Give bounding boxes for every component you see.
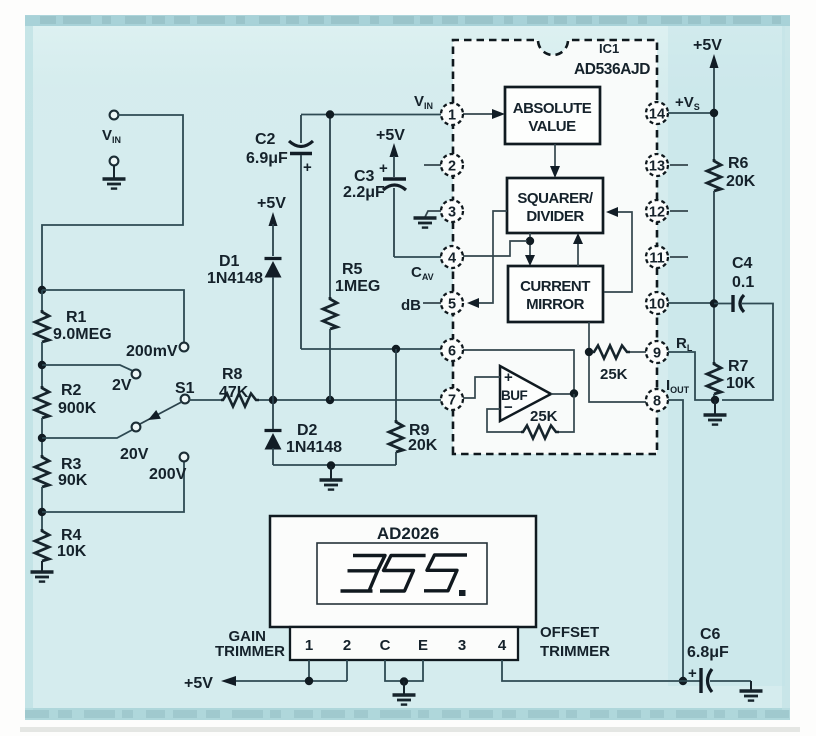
svg-text:2: 2 (448, 159, 456, 175)
node 25K/pin9 junction (585, 348, 593, 356)
pin 12 (646, 200, 668, 222)
pin 2 stub (424, 164, 441, 166)
pin 7 (441, 388, 463, 410)
wire display pin 1 down (308, 660, 310, 681)
wire S1 to R8 (189, 399, 221, 401)
svg-text:6.9μF: 6.9μF (246, 150, 288, 167)
svg-text:4: 4 (448, 251, 456, 267)
resistor 25K (BUF feedback) (521, 426, 559, 439)
svg-text:200V: 200V (149, 466, 187, 483)
node D1/D2 junction (269, 396, 277, 404)
7-segment digit 5 (right) (424, 555, 467, 591)
svg-text:12: 12 (649, 205, 665, 221)
svg-text:R4: R4 (61, 527, 82, 544)
svg-text:R2: R2 (61, 382, 82, 399)
wire pin6 to BUF output node (463, 350, 574, 390)
pin 11 stub (670, 256, 688, 258)
wire 200mV tap (42, 290, 184, 343)
wire R3 to R4 (41, 487, 43, 529)
svg-text:R1: R1 (66, 309, 87, 326)
node 2V contact (132, 370, 141, 379)
svg-text:3: 3 (458, 637, 466, 654)
svg-text:VALUE: VALUE (528, 118, 576, 135)
wire pin 9 to ground node (668, 352, 711, 400)
svg-text:1: 1 (448, 108, 456, 124)
node SQ/CM link junction (526, 237, 534, 245)
svg-text:8: 8 (653, 394, 661, 410)
wire display pin 2 down (346, 660, 348, 681)
svg-text:C6: C6 (700, 626, 721, 643)
svg-text:C3: C3 (354, 168, 375, 185)
ground (divider bottom) (41, 561, 43, 571)
resistor R3 (35, 455, 49, 487)
svg-text:9: 9 (653, 346, 661, 362)
display module AD2026 body (270, 516, 536, 627)
wire C4 return loop (722, 304, 773, 401)
svg-text:2: 2 (343, 637, 351, 654)
pin 12 stub (670, 210, 688, 212)
wire R6 to pin10 node (713, 191, 715, 362)
capacitor C6 6.8uF (683, 680, 701, 682)
wire CM right feedback to SQ right with left arrow (604, 212, 632, 292)
switch S1 arm (140, 402, 182, 424)
svg-text:C: C (380, 637, 391, 654)
pin 14 (646, 102, 668, 124)
decimal point (459, 590, 466, 596)
svg-text:2V: 2V (112, 377, 132, 394)
node 200V tap junction (38, 508, 46, 516)
svg-text:47K: 47K (219, 384, 249, 401)
svg-text:+: + (379, 160, 388, 177)
svg-text:0.1: 0.1 (732, 274, 754, 291)
wire CM top to SQ bottom with up arrow (577, 240, 579, 266)
resistor R1 (35, 310, 49, 342)
svg-text:90K: 90K (58, 472, 88, 489)
pin 11 (646, 246, 668, 268)
svg-text:+5V: +5V (376, 127, 405, 144)
svg-text:+: + (504, 369, 513, 386)
wire +5V feed to display (227, 680, 347, 682)
node C/E ground junction (400, 677, 408, 685)
resistor 25K (pin 9) (592, 346, 630, 359)
svg-text:R5: R5 (342, 261, 363, 278)
wire pin 10 to rail (668, 302, 714, 304)
svg-text:D1: D1 (219, 253, 240, 270)
node +Vs junction (710, 109, 718, 117)
wire BUF feedback loop (559, 394, 574, 432)
svg-text:1N4148: 1N4148 (207, 270, 263, 287)
pin 13 stub (670, 164, 688, 166)
diode D2 1N4148 (272, 400, 274, 430)
wire VIN top to pin 1 (301, 114, 441, 116)
7-segment digit 5 (middle) (380, 556, 426, 592)
svg-text:R6: R6 (728, 155, 749, 172)
wire 2V tap (42, 365, 133, 371)
wire pin4 internal (463, 241, 527, 256)
svg-text:20K: 20K (726, 173, 756, 190)
node 200mV contact (180, 343, 189, 352)
svg-text:R7: R7 (728, 358, 749, 375)
node C6 junction (679, 677, 687, 685)
node divider top junction (38, 286, 46, 294)
ground (R7) (714, 400, 716, 414)
svg-text:3: 3 (448, 205, 456, 221)
svg-text:6: 6 (448, 344, 456, 360)
svg-text:CURRENT: CURRENT (520, 278, 590, 295)
node display pin1 junction (305, 677, 313, 685)
wire display pins C and E to ground (385, 660, 423, 681)
svg-text:13: 13 (649, 159, 665, 175)
node R5 junction (326, 396, 334, 404)
switch S1 pole contact (181, 395, 190, 404)
svg-text:IC1: IC1 (599, 41, 619, 56)
block SQUARER/DIVIDER (507, 178, 603, 233)
node 2V tap junction (38, 361, 46, 369)
node BUF output (570, 389, 578, 397)
node pin10/C4 junction (710, 299, 718, 307)
wire pin1 to absolute value block (463, 113, 498, 115)
ground (pin 3) (425, 211, 441, 217)
pin 9 (646, 341, 668, 363)
node 20V tap junction (38, 434, 46, 442)
svg-text:+: + (688, 665, 697, 682)
svg-text:25K: 25K (600, 366, 628, 383)
display window (317, 543, 487, 604)
svg-text:MIRROR: MIRROR (526, 296, 584, 313)
svg-text:6.8μF: 6.8μF (687, 644, 729, 661)
svg-text:2.2μF: 2.2μF (343, 184, 385, 201)
wire R8 to pin 7 (259, 399, 441, 401)
svg-text:−: − (504, 399, 513, 416)
wire C2 bottom to pin 6 (301, 348, 441, 350)
ground (C6) (740, 691, 763, 701)
svg-text:TRIMMER: TRIMMER (540, 643, 610, 660)
svg-text:1MEG: 1MEG (335, 278, 380, 295)
svg-text:11: 11 (649, 251, 664, 267)
pin 6 (441, 339, 463, 361)
resistor R8 (221, 394, 259, 407)
svg-text:E: E (418, 637, 428, 654)
svg-text:DIVIDER: DIVIDER (526, 208, 584, 225)
node 200V contact (180, 453, 189, 462)
svg-text:ABSOLUTE: ABSOLUTE (513, 100, 592, 117)
ground (VIN return) (113, 165, 115, 178)
wire SQ bottom to CM top with down arrow (529, 233, 531, 259)
svg-text:OFFSET: OFFSET (540, 624, 599, 641)
svg-text:C2: C2 (255, 131, 276, 148)
wire pin7 to BUF + input (463, 377, 500, 398)
svg-text:AD2026: AD2026 (377, 524, 439, 543)
wire BUF output (551, 393, 574, 395)
resistor R5 1MEG (329, 115, 331, 297)
wire CM bottom to pin8 internal (589, 322, 646, 402)
node ground junction below D2 (327, 461, 335, 469)
pin 13 (646, 154, 668, 176)
wire ABS to SQUARER with arrow (554, 144, 556, 170)
diode D1 1N4148 (265, 259, 282, 278)
wire pin 14 to rail (668, 112, 714, 114)
wire C3 to pin 4 (394, 256, 441, 258)
capacitor C2 6.9uF (300, 115, 302, 143)
pin 5 (441, 292, 463, 314)
op-amp BUF (500, 366, 551, 421)
wire R2 to R3 (41, 418, 43, 455)
ground (D2/R9) (330, 466, 332, 479)
pin 3 (441, 200, 463, 222)
svg-text:AD536AJD: AD536AJD (574, 61, 650, 78)
svg-text:10K: 10K (57, 543, 87, 560)
wire pin 8 IOUT down (668, 400, 683, 681)
resistor R2 (35, 386, 49, 418)
svg-text:SQUARER/: SQUARER/ (517, 190, 594, 207)
pin 10 (646, 292, 668, 314)
wire to R1 (41, 290, 43, 310)
svg-text:dB: dB (401, 297, 421, 314)
resistor R4 (35, 529, 49, 561)
node R7 bottom junction (711, 396, 719, 404)
svg-text:+5V: +5V (693, 37, 722, 54)
svg-text:20V: 20V (120, 446, 149, 463)
wire D2 anode to R9 bottom (273, 464, 396, 466)
svg-text:7: 7 (448, 393, 456, 409)
svg-text:9.0MEG: 9.0MEG (53, 326, 112, 343)
svg-text:R8: R8 (222, 366, 243, 383)
ground (display) (393, 695, 416, 705)
svg-text:TRIMMER: TRIMMER (215, 643, 285, 660)
svg-text:20K: 20K (408, 437, 438, 454)
wire VIN terminal to divider top (42, 115, 183, 288)
svg-text:10: 10 (649, 297, 665, 313)
svg-text:25K: 25K (530, 408, 558, 425)
svg-text:1: 1 (305, 637, 313, 654)
resistor R6 20K (707, 159, 721, 191)
node C2/R5 junction (326, 110, 334, 118)
svg-text:14: 14 (649, 107, 665, 123)
svg-text:900K: 900K (58, 400, 97, 417)
svg-text:+5V: +5V (257, 195, 286, 212)
op-amp/IC body U1 outline (dashed with notch) (453, 40, 657, 454)
block CURRENT MIRROR (508, 266, 603, 322)
wire C6 to ground (710, 680, 751, 682)
node R9 top junction (392, 345, 400, 353)
svg-text:D2: D2 (297, 422, 318, 439)
wire 20V tap (42, 430, 132, 438)
svg-text:+: + (303, 159, 312, 176)
svg-text:1N4148: 1N4148 (286, 439, 342, 456)
7-segment digit 3 (341, 556, 386, 592)
svg-text:5: 5 (448, 297, 456, 313)
svg-text:200mV: 200mV (126, 343, 178, 360)
svg-text:4: 4 (498, 637, 507, 654)
capacitor C4 0.1 (714, 303, 733, 305)
svg-text:R3: R3 (61, 456, 82, 473)
wire display pin 4 to C6 node (502, 660, 683, 681)
svg-text:C4: C4 (732, 255, 753, 272)
display pin bar (290, 627, 518, 660)
pin 1 (441, 103, 463, 125)
node 20V contact (132, 423, 141, 432)
wire R1 to R2 (41, 342, 43, 386)
resistor R7 10K (707, 362, 721, 394)
pin 8 (646, 389, 668, 411)
resistor R9 20K (395, 349, 397, 420)
node VIN input terminal (110, 111, 119, 120)
pin 2 (441, 154, 463, 176)
block ABSOLUTE VALUE (505, 87, 600, 144)
svg-text:10K: 10K (726, 375, 756, 392)
VIN return terminal (110, 157, 119, 166)
wire 200V tap (42, 461, 184, 512)
pin 4 (441, 246, 463, 268)
wire SQ left to pin 5 with left arrow (474, 211, 507, 303)
svg-text:S1: S1 (175, 380, 195, 397)
svg-text:+5V: +5V (184, 675, 213, 692)
